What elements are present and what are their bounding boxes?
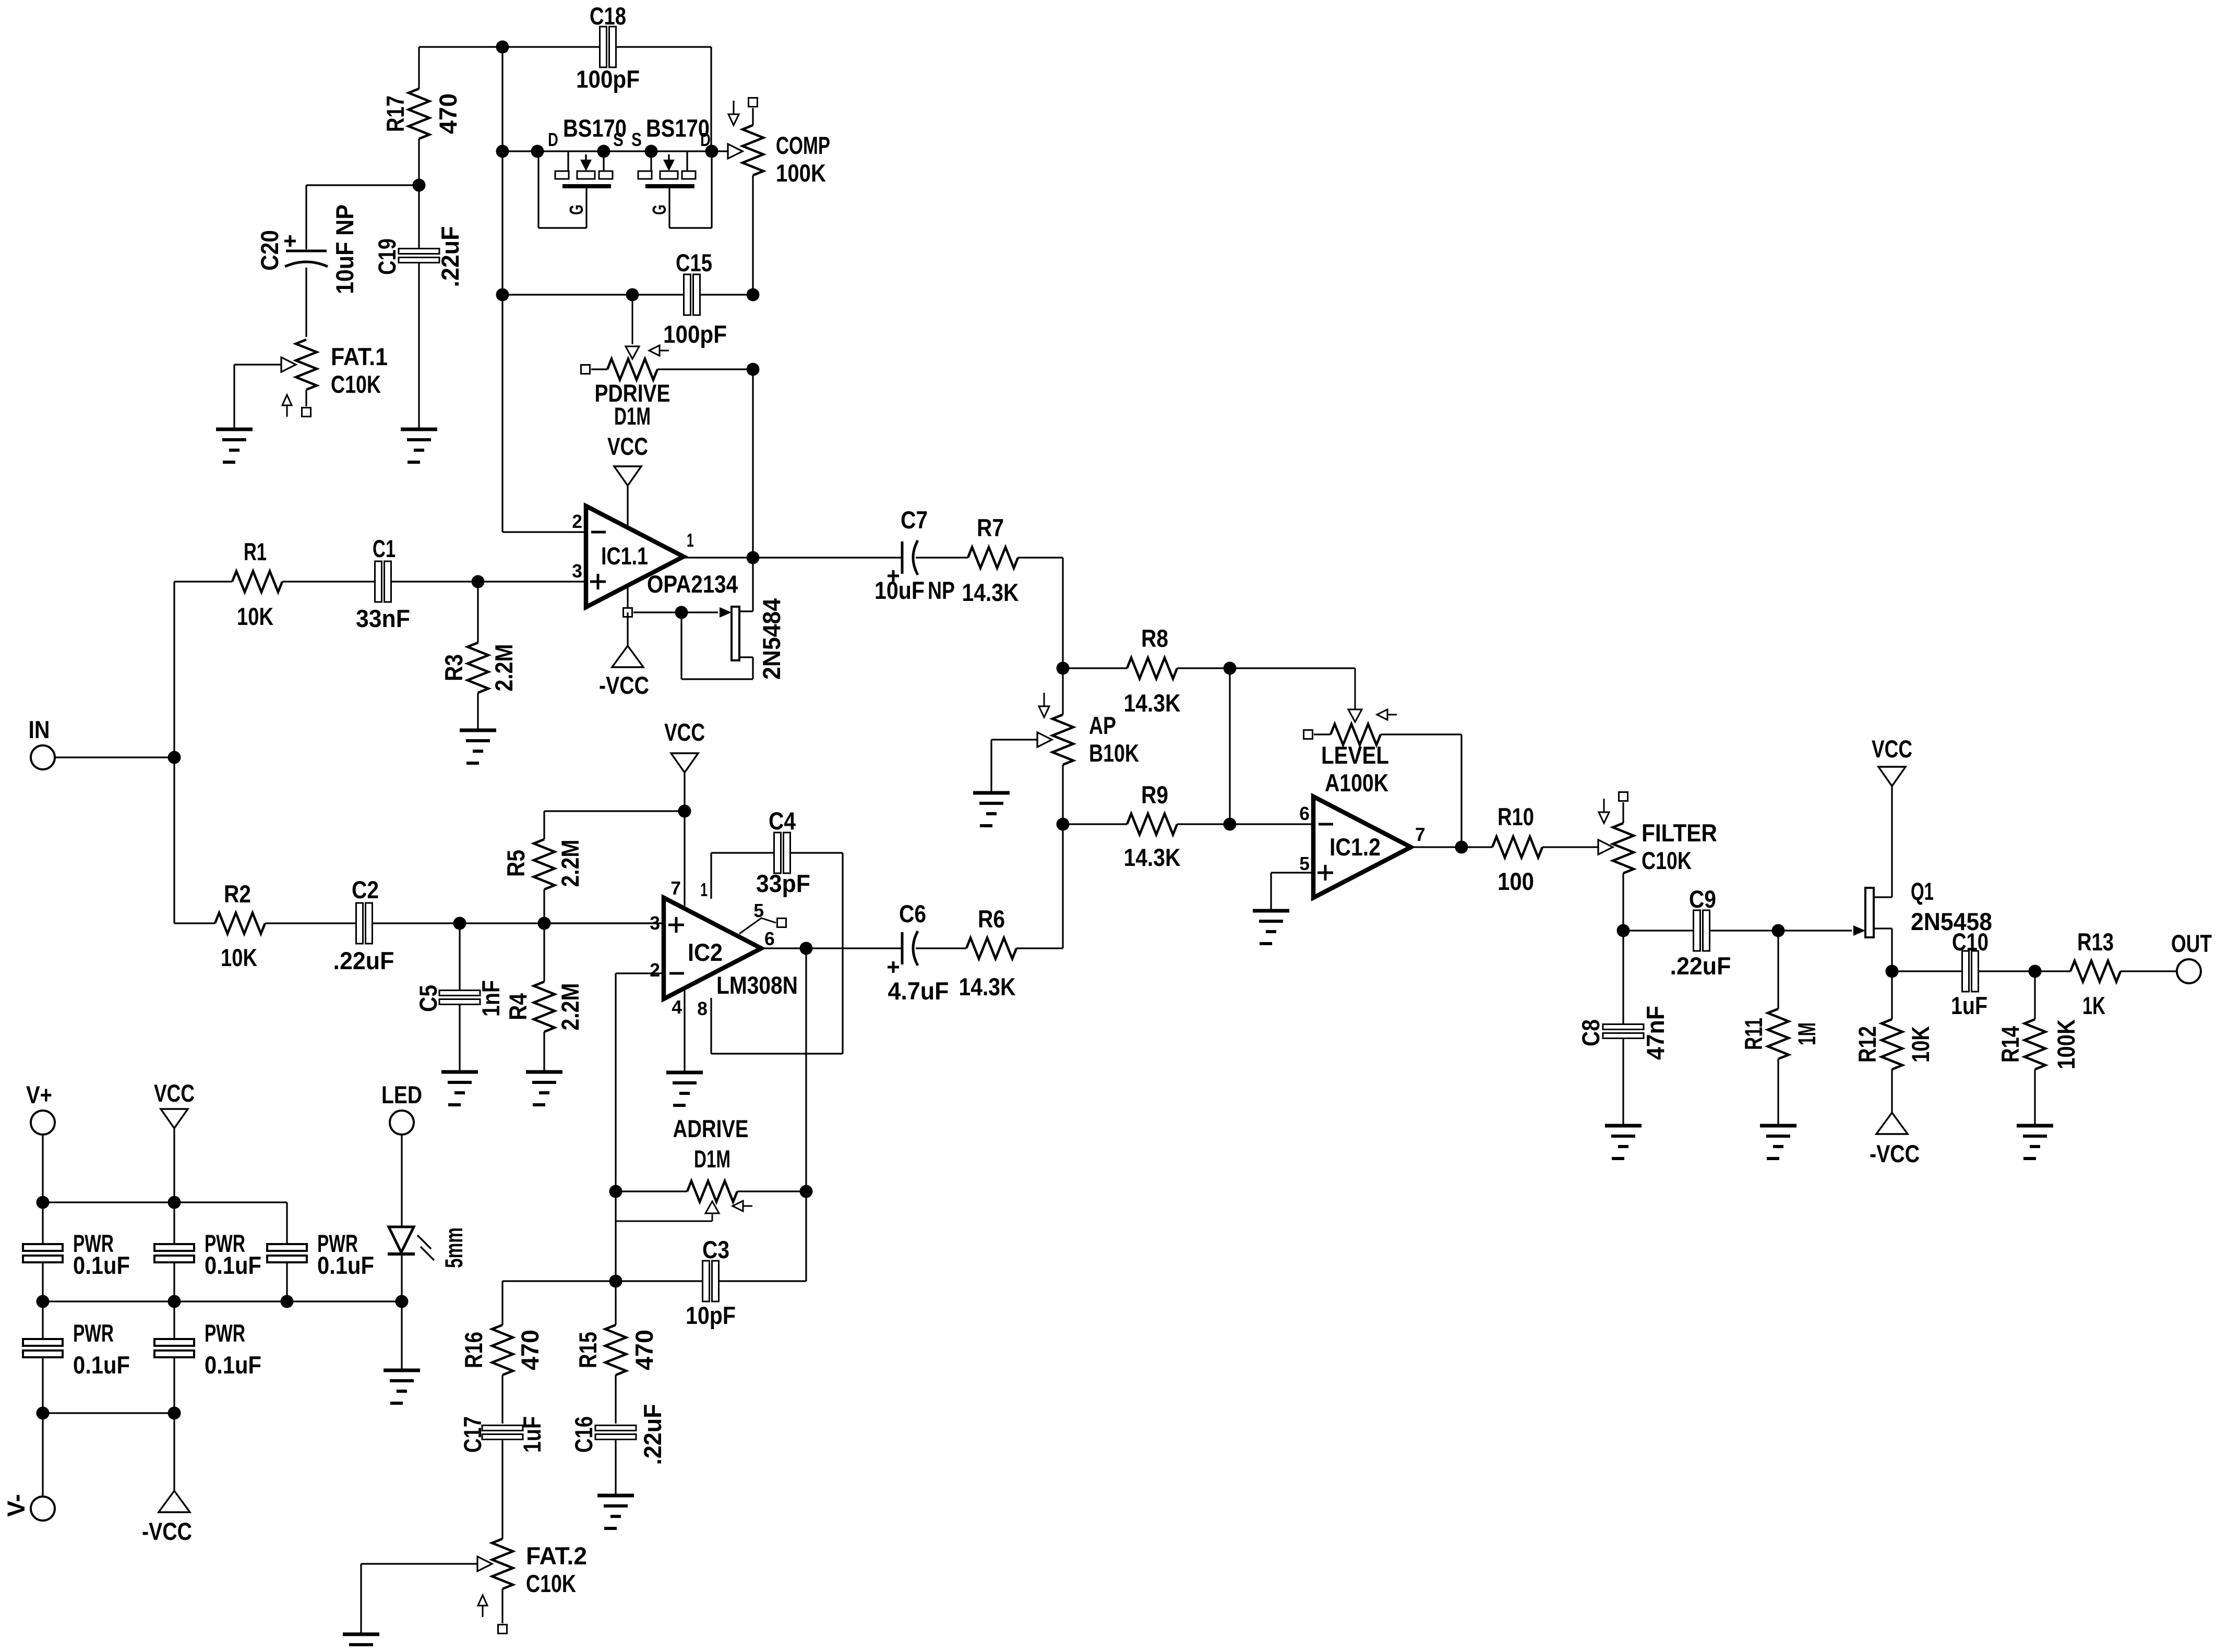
svg-text:LEVEL: LEVEL [1321,742,1389,769]
svg-text:10pF: 10pF [686,1302,736,1330]
ground IC2 pin4 [666,1072,703,1105]
wire R8-R9 tie [1229,668,1230,824]
node junction C15-right [747,288,760,302]
svg-text:14.3K: 14.3K [1124,844,1181,872]
pad PDRIVE terminal [581,365,590,374]
node junction bus2 b [168,1295,181,1308]
power VCC Q1 [1872,735,1912,897]
svg-text:3: 3 [572,560,582,582]
power VCC IC2 [664,719,705,811]
node junction VCC IC2 [678,805,691,818]
svg-text:R10: R10 [1498,803,1534,831]
svg-text:.22uF: .22uF [639,1404,667,1465]
wire IC2 pin7/4 [670,811,685,1071]
wire IC2 pin2 [616,972,664,974]
svg-text:C15: C15 [676,249,712,277]
svg-text:PWR: PWR [73,1320,114,1347]
svg-text:33nF: 33nF [356,605,410,633]
capacitor C3 [616,1236,806,1330]
wire pin2 vertical [615,973,616,1281]
svg-text:1nF: 1nF [477,980,505,1017]
svg-text:FAT.2: FAT.2 [526,1542,587,1570]
capacitor C18 [576,3,640,93]
terminal IN [29,716,55,769]
wire IC1.2 out [1411,846,1492,848]
node junction C3 left [609,1275,622,1288]
node junction R14/R13 [2029,965,2042,978]
wire R8 to LEVEL [1230,667,1355,669]
svg-text:14.3K: 14.3K [962,579,1019,607]
svg-text:G: G [649,204,670,215]
node junction V+ bus [37,1196,50,1209]
svg-text:C16: C16 [570,1416,598,1453]
node junction PDRIVE-right [747,363,760,376]
power -VCC R12 [1870,1113,1920,1168]
svg-text:IC2: IC2 [688,939,723,967]
svg-text:4: 4 [672,996,682,1018]
svg-text:R3: R3 [440,654,468,681]
svg-text:Q1: Q1 [1911,878,1934,906]
potentiometer ADRIVE [616,1115,806,1221]
svg-text:R15: R15 [574,1332,602,1368]
transistor Q BS170 right [631,115,712,228]
svg-text:IC1.1: IC1.1 [601,542,648,570]
svg-text:C18: C18 [590,3,626,30]
potentiometer LEVEL [1314,668,1462,847]
pad LEVEL terminal [1304,730,1313,739]
svg-text:10uF NP: 10uF NP [331,204,359,294]
capacitor C8 [1577,931,1670,1124]
svg-text:47nF: 47nF [1642,1006,1670,1060]
wire IC2 out [761,947,902,949]
ground LED [384,1370,420,1403]
svg-text:B10K: B10K [1089,740,1139,767]
svg-text:C7: C7 [901,507,928,534]
wire feedback vertical [501,47,503,532]
wire IC1.1 output [684,557,902,558]
capacitor PWR2 [154,1230,261,1339]
svg-text:7: 7 [1415,824,1426,845]
node junction C18-left [496,41,509,54]
node junction IC2 out [800,942,813,955]
resistor R5 [502,811,685,923]
node junction R9 left [1057,818,1070,831]
node junction VCC bus [168,1196,181,1209]
wire FET drain-source rail [502,150,712,152]
svg-text:IC1.2: IC1.2 [1329,834,1381,861]
svg-text:5: 5 [1299,853,1310,874]
svg-text:C10K: C10K [1642,847,1692,875]
svg-text:R9: R9 [1141,781,1168,809]
svg-text:R17: R17 [382,95,410,132]
resistor R10 [1492,803,1599,896]
node junction JFET gate [675,606,688,619]
svg-text:OUT: OUT [2171,930,2212,958]
potentiometer AP [991,693,1139,825]
pad IC1.1 stub [624,608,632,617]
svg-text:10K: 10K [1907,1026,1935,1063]
wire bus top [43,1202,287,1244]
svg-text:AP: AP [1089,712,1116,740]
svg-text:470: 470 [631,1330,658,1370]
svg-text:2: 2 [650,959,660,981]
capacitor PWR5 [154,1320,261,1413]
capacitor C9 [1623,886,1778,980]
svg-text:.22uF: .22uF [1670,952,1731,980]
svg-text:0.1uF: 0.1uF [317,1252,374,1280]
node junction R5/R4 [538,917,551,930]
svg-text:C9: C9 [1689,886,1716,913]
svg-text:10K: 10K [221,944,257,972]
svg-text:100: 100 [1498,868,1534,896]
svg-text:0.1uF: 0.1uF [73,1252,130,1280]
wire bus mid [43,1300,402,1302]
resistor R7 [962,514,1063,607]
svg-text:C19: C19 [374,238,401,275]
pad COMP terminal [749,98,758,107]
svg-text:1uF: 1uF [519,1416,546,1453]
capacitor C7 [875,507,968,605]
capacitor C4 loop [711,807,843,1054]
svg-text:C10K: C10K [526,1570,576,1598]
wire IC2 pin3 [544,922,664,924]
node junction Q1 source [1886,965,1899,978]
svg-text:R7: R7 [977,514,1004,542]
svg-text:R5: R5 [502,850,530,877]
svg-text:D1M: D1M [614,403,651,430]
svg-text:1K: 1K [2082,992,2105,1020]
node junction fb-fet [496,145,509,158]
op-amp IC2 [650,879,798,1019]
resistor R16 [460,1325,544,1424]
node junction R3 top [472,575,485,588]
svg-text:R14: R14 [1997,1026,2025,1063]
svg-text:0.1uF: 0.1uF [205,1352,261,1379]
terminal V+ [26,1081,55,1135]
node junction FILTER/C8 [1617,924,1630,937]
power -VCC rail [142,1413,192,1546]
op-amp IC1.2 [1299,797,1425,898]
svg-text:OPA2134: OPA2134 [647,571,738,598]
capacitor C17 [459,1416,546,1539]
svg-text:LM308N: LM308N [716,972,798,999]
ground IC1.2 pin5 [1253,911,1289,944]
svg-text:.22uF: .22uF [333,947,394,975]
svg-text:6: 6 [764,928,775,949]
wire IN [55,756,174,758]
terminal V- [3,1413,55,1521]
svg-text:C10K: C10K [331,371,381,399]
svg-text:G: G [566,204,587,215]
resistor R15 [574,1281,658,1424]
potentiometer FILTER [1598,799,1717,931]
capacitor C10 [1892,929,2035,1020]
svg-text:C4: C4 [769,807,796,835]
pad FAT.1 terminal [302,408,311,417]
node junction IC1.2 out [1455,841,1468,854]
potentiometer PDRIVE [591,295,753,430]
svg-text:0.1uF: 0.1uF [205,1252,261,1280]
resistor R4 [505,923,584,1070]
svg-text:R1: R1 [244,538,267,566]
svg-text:1uF: 1uF [1951,992,1987,1020]
svg-text:10K: 10K [237,603,273,631]
diode LED [388,1135,468,1369]
node junction fb-C15 [496,288,509,302]
resistor R17 [382,47,462,185]
op-amp IC1.1 [572,506,738,607]
svg-text:C3: C3 [702,1236,729,1264]
wire IC1.2 pin5 [1271,873,1313,910]
wire AP bottom [1062,824,1063,948]
svg-text:FAT.1: FAT.1 [331,343,388,371]
ground R11 [1760,1126,1796,1159]
svg-text:VCC: VCC [664,719,705,746]
svg-text:PWR: PWR [205,1320,245,1347]
svg-text:1: 1 [687,529,694,551]
svg-text:C17: C17 [459,1416,487,1453]
ground C8 [1605,1126,1642,1159]
resistor R3 [440,582,518,729]
ground AP [973,793,1010,826]
capacitor PWR3 [267,1230,374,1301]
wire input vertical [173,582,175,923]
wire C20 top [306,184,419,186]
svg-text:-VCC: -VCC [142,1518,192,1546]
node junction IN split [168,751,181,764]
svg-text:2.2M: 2.2M [490,644,518,692]
svg-text:R11: R11 [1740,1018,1768,1050]
wire V+ down [42,1135,43,1244]
svg-text:14.3K: 14.3K [959,973,1016,1001]
resistor R2 [174,881,357,972]
svg-text:7: 7 [670,877,681,899]
svg-text:C6: C6 [899,900,926,928]
node junction IC1.1 out [747,551,760,564]
svg-text:IN: IN [29,716,50,744]
node junction BS170b source [645,145,658,158]
node junction BS170b drain/COMP [705,145,718,158]
capacitor C5 [415,923,505,1070]
svg-text:-VCC: -VCC [1870,1140,1920,1168]
svg-text:V+: V+ [26,1081,52,1109]
svg-text:1M: 1M [1793,1022,1821,1045]
svg-text:R13: R13 [2077,929,2114,956]
svg-text:5mm: 5mm [440,1227,468,1268]
ground C19 [401,429,437,462]
resistor R1 [174,538,376,631]
node junction R8 left [1057,662,1070,675]
wire IC1.1 pin2 [502,531,586,533]
svg-text:R12: R12 [1854,1026,1882,1063]
capacitor C15 [663,249,727,348]
ground C16 [597,1496,634,1528]
svg-text:C5: C5 [415,985,442,1012]
ground R14 [2017,1126,2053,1159]
wire IC2 out vertical [805,948,807,1281]
svg-text:.22uF: .22uF [437,226,464,287]
svg-text:C8: C8 [1577,1019,1605,1046]
svg-text:C1: C1 [373,535,396,563]
ground FAT.1 [216,429,253,462]
svg-text:470: 470 [435,93,462,134]
power -VCC IC1.1 [599,612,649,700]
svg-text:S: S [631,129,642,150]
transistor Q1 2N5458 [1865,878,1992,971]
pin5 stub IC2 [739,900,786,949]
wire IC1.1 pin3 [478,581,586,582]
node junction R8 right [1224,662,1237,675]
ground R3 [460,730,496,763]
ground FAT.2 [343,1634,379,1652]
capacitor C6 [888,900,966,1005]
svg-text:R4: R4 [505,993,532,1020]
svg-text:6: 6 [1299,803,1310,824]
svg-text:A100K: A100K [1325,769,1388,797]
capacitor C2 [333,876,664,975]
svg-text:R2: R2 [224,881,251,908]
node junction R9 right [1224,818,1237,831]
wire bus low [43,1412,174,1414]
svg-text:C10: C10 [1952,929,1989,956]
capacitor PWR4 [23,1320,130,1413]
svg-text:33pF: 33pF [756,870,810,898]
svg-text:VCC: VCC [607,433,648,461]
node junction PDRIVE wiper [626,288,639,302]
svg-text:14.3K: 14.3K [1124,690,1181,717]
svg-text:R8: R8 [1141,625,1168,653]
svg-text:S: S [613,129,624,150]
pad FILTER terminal [1619,792,1628,801]
resistor R9 [1063,781,1230,872]
power VCC IC1.1 [607,433,648,608]
svg-text:100pF: 100pF [663,321,727,348]
svg-text:0.1uF: 0.1uF [73,1352,130,1379]
node junction R11/gate [1772,924,1785,937]
resistor R8 [1063,625,1230,717]
svg-text:C2: C2 [352,876,379,904]
node junction bus3 a [37,1407,50,1420]
svg-text:2N5484: 2N5484 [758,598,786,680]
wire JFET gate [633,607,732,618]
svg-text:8: 8 [697,998,708,1019]
wire COMP column to output [752,369,753,558]
ground C5 [441,1072,478,1105]
potentiometer FAT.1 [234,340,388,428]
potentiometer COMP [712,101,830,187]
terminal LED [381,1081,422,1135]
svg-text:NP: NP [928,577,955,605]
capacitor C16 [570,1404,667,1494]
node junction R17/C19/C20 [413,179,426,192]
capacitor C19 [374,185,464,428]
node junction bus2 d [396,1295,409,1308]
svg-text:2.2M: 2.2M [557,840,584,887]
svg-text:1: 1 [700,879,708,900]
node junction ADRIVE left [609,1185,622,1198]
resistor R13 [2035,929,2177,1020]
node junction C5 top [453,917,466,930]
svg-text:100K: 100K [2053,1019,2080,1069]
transistor 2N5484 [681,558,786,680]
wire COMP bottom [752,175,753,295]
node junction BS170a source [597,145,610,158]
svg-text:VCC: VCC [1872,735,1912,763]
svg-text:D: D [548,129,558,150]
node junction ADRIVE right [800,1185,813,1198]
resistor R14 [1997,971,2080,1124]
svg-text:D1M: D1M [694,1145,730,1173]
svg-text:C20: C20 [256,230,284,271]
power VCC rail [154,1080,195,1244]
resistor R12 [1854,971,1935,1113]
pad FAT.2 terminal [498,1625,507,1634]
node junction bus2 a [37,1295,50,1308]
svg-text:-VCC: -VCC [599,672,649,700]
svg-text:4.7uF: 4.7uF [888,978,949,1005]
wire top feedback rail [419,46,711,47]
capacitor C1 [356,535,478,633]
svg-text:VCC: VCC [154,1080,195,1107]
node junction bus2 c [281,1295,294,1308]
svg-text:R16: R16 [460,1332,488,1368]
svg-text:2: 2 [572,511,582,532]
potentiometer FAT.2 [361,1539,587,1633]
capacitor C20 [256,185,359,337]
node junction BS170a drain [531,145,544,158]
svg-text:100pF: 100pF [576,66,640,93]
ground R4 [526,1072,562,1105]
wire gate Q1 [1778,925,1865,936]
transistor Q BS170 left [538,115,627,228]
svg-text:LED: LED [381,1081,422,1109]
resistor R6 [959,906,1063,1001]
wire C15 row [502,294,753,295]
wire to IC1.2 pin6 [1230,823,1313,825]
wire mid vertical top [1062,558,1063,715]
capacitor PWR1 [23,1230,130,1339]
svg-text:COMP: COMP [776,132,830,160]
svg-text:100K: 100K [776,160,826,187]
svg-text:470: 470 [517,1330,544,1370]
wire C3 to R16 [502,1281,616,1325]
resistor R11 [1740,931,1821,1124]
terminal OUT [2171,930,2212,983]
svg-text:V-: V- [3,1494,30,1517]
node junction bus3 b [168,1407,181,1420]
svg-text:R6: R6 [978,906,1005,933]
svg-text:10uF: 10uF [875,577,925,605]
svg-text:5: 5 [753,900,764,921]
wire C18 right drop [710,47,712,151]
svg-text:FILTER: FILTER [1642,819,1717,847]
svg-text:2.2M: 2.2M [557,983,584,1031]
svg-text:ADRIVE: ADRIVE [673,1115,749,1143]
